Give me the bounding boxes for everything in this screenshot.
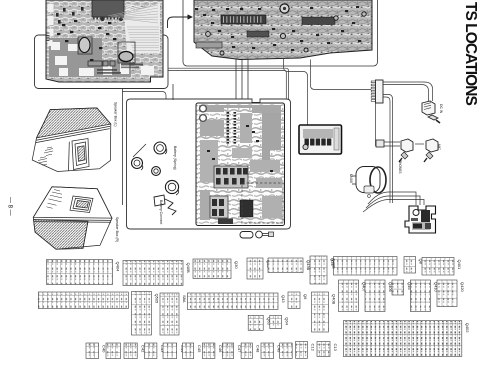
wire to harness connector xyxy=(311,60,372,90)
table Q34 xyxy=(310,256,335,284)
table S8A xyxy=(160,293,187,335)
main PCB board xyxy=(194,0,372,60)
svg-text:Q30: Q30 xyxy=(234,261,239,269)
speaker wire xyxy=(122,89,124,206)
table Q420 xyxy=(437,280,465,307)
wire drop 2 xyxy=(241,58,243,99)
table Q40B xyxy=(332,257,397,276)
table Q40B xyxy=(312,292,337,332)
table C401 xyxy=(106,343,129,359)
table C409 xyxy=(261,343,282,359)
svg-text:PHONES: PHONES xyxy=(398,160,402,173)
svg-text:Speaker Box (R): Speaker Box (R) xyxy=(115,217,119,242)
motor lead wires xyxy=(383,95,393,204)
tuner PCB board xyxy=(46,0,163,82)
battery spring C xyxy=(152,167,161,176)
wire drop 3 xyxy=(247,59,249,99)
speaker box L xyxy=(32,108,111,172)
svg-text:Q402: Q402 xyxy=(465,323,470,334)
wire to DC jack xyxy=(383,82,433,101)
IC bar xyxy=(302,17,335,25)
svg-text:Q6: Q6 xyxy=(303,294,308,300)
table Q80 xyxy=(38,292,136,309)
pointer line xyxy=(133,144,146,157)
svg-text:DC IN: DC IN xyxy=(439,104,443,114)
wire to main PCB arrow xyxy=(168,17,193,28)
table Q8 xyxy=(404,257,424,274)
belt and pulley xyxy=(240,231,274,238)
svg-text:S8A: S8A xyxy=(182,295,187,303)
main PCB outer outline xyxy=(183,0,378,66)
connector CN1 xyxy=(221,15,266,24)
table Q6 xyxy=(288,292,308,309)
svg-text:Q43: Q43 xyxy=(281,295,286,303)
wire pair from tuner frame xyxy=(168,68,289,99)
wire frame around cassette PCB xyxy=(127,99,291,229)
svg-text:Battery (Spring): Battery (Spring) xyxy=(173,146,177,170)
svg-text:Q40B: Q40B xyxy=(332,259,337,270)
table Q63 xyxy=(248,315,271,330)
table Q58 xyxy=(247,258,271,279)
svg-text:C48: C48 xyxy=(256,345,261,353)
table C413 xyxy=(317,342,338,357)
table C410 xyxy=(280,343,301,359)
svg-text:Q505: Q505 xyxy=(155,294,160,305)
table Q410 xyxy=(410,280,438,312)
battery contact xyxy=(154,195,165,206)
table Q40B xyxy=(123,261,191,286)
phone jack 2 xyxy=(424,139,441,162)
ceramic disc xyxy=(280,4,289,13)
table Q43 xyxy=(187,293,286,310)
svg-text:C12: C12 xyxy=(311,344,316,352)
wire to jack PCB xyxy=(284,59,308,125)
svg-text:M400: M400 xyxy=(349,174,353,183)
table Q401 xyxy=(422,258,462,276)
table Q30 xyxy=(193,259,239,279)
svg-text:Speaker Box (L): Speaker Box (L) xyxy=(114,102,118,127)
jack drop wire xyxy=(375,103,377,146)
wire drop 1 xyxy=(235,57,237,99)
svg-text:Q420: Q420 xyxy=(460,282,465,293)
table C406 xyxy=(202,343,223,359)
component cluster xyxy=(214,166,248,188)
wires to switch board xyxy=(363,192,424,212)
wire corner below tuner PCB xyxy=(123,92,167,99)
svg-text:Battery Connect: Battery Connect xyxy=(159,200,163,224)
table C405 xyxy=(183,343,202,359)
jack PCB xyxy=(299,125,342,154)
battery spring B xyxy=(132,158,143,171)
table Q43B xyxy=(268,258,311,273)
table C408 xyxy=(241,343,260,359)
table Q46 xyxy=(392,280,412,295)
DC jack xyxy=(422,101,443,123)
svg-text:Q401: Q401 xyxy=(457,260,462,271)
table C407 xyxy=(222,343,241,359)
phone jack 1 xyxy=(398,139,413,173)
table Q406 xyxy=(365,280,393,312)
svg-text:C45: C45 xyxy=(197,345,202,353)
table C404 xyxy=(163,343,185,359)
harness connector xyxy=(371,80,383,103)
table Q64 xyxy=(270,315,290,328)
svg-text:— 8 —: — 8 — xyxy=(7,197,13,216)
table C403 xyxy=(145,343,166,359)
table Q505 xyxy=(132,292,160,336)
connector xyxy=(376,140,384,147)
svg-text:Q64: Q64 xyxy=(285,317,290,325)
switch PCB xyxy=(405,206,436,233)
battery spring D xyxy=(165,180,178,195)
svg-text:Q40B: Q40B xyxy=(186,263,191,274)
table C412 xyxy=(296,342,316,359)
wire xyxy=(172,84,174,100)
svg-text:Q404: Q404 xyxy=(116,262,121,273)
cassette PCB board xyxy=(196,103,285,226)
dashed service area xyxy=(242,183,283,223)
table Q402 large xyxy=(343,321,470,357)
table C402 xyxy=(124,343,145,359)
speaker box R xyxy=(33,187,112,250)
svg-text:C13: C13 xyxy=(333,344,338,352)
table Q404 xyxy=(47,260,121,285)
motor M400 xyxy=(349,167,386,198)
wire frame around tuner PCB xyxy=(35,35,169,89)
svg-text:MIC: MIC xyxy=(437,144,441,151)
IC201 pins xyxy=(227,112,230,114)
jack link wires xyxy=(378,142,400,146)
svg-text:Q40B: Q40B xyxy=(332,294,337,305)
table Q407 xyxy=(339,280,367,312)
svg-text:TS LOCATIONS: TS LOCATIONS xyxy=(462,2,479,105)
table C400 xyxy=(86,343,107,359)
battery spring A xyxy=(154,142,167,154)
